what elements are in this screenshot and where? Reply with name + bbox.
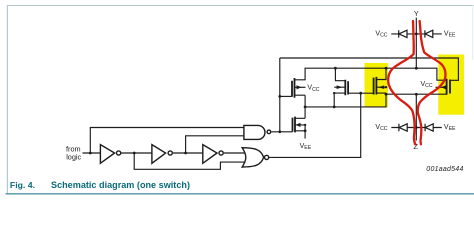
- svg-text:VEE: VEE: [444, 30, 456, 38]
- svg-text:Y: Y: [414, 9, 419, 18]
- svg-text:VCC: VCC: [375, 124, 387, 132]
- svg-text:Fig. 4.: Fig. 4.: [10, 180, 35, 190]
- svg-text:VCC: VCC: [307, 85, 319, 93]
- svg-text:VEE: VEE: [300, 143, 312, 151]
- svg-text:VCC: VCC: [421, 81, 433, 89]
- svg-text:001aad544: 001aad544: [426, 166, 463, 173]
- svg-text:VCC: VCC: [375, 30, 387, 38]
- svg-text:logic: logic: [66, 152, 81, 161]
- svg-text:VEE: VEE: [444, 124, 456, 132]
- svg-text:Schematic diagram (one switch): Schematic diagram (one switch): [51, 180, 190, 190]
